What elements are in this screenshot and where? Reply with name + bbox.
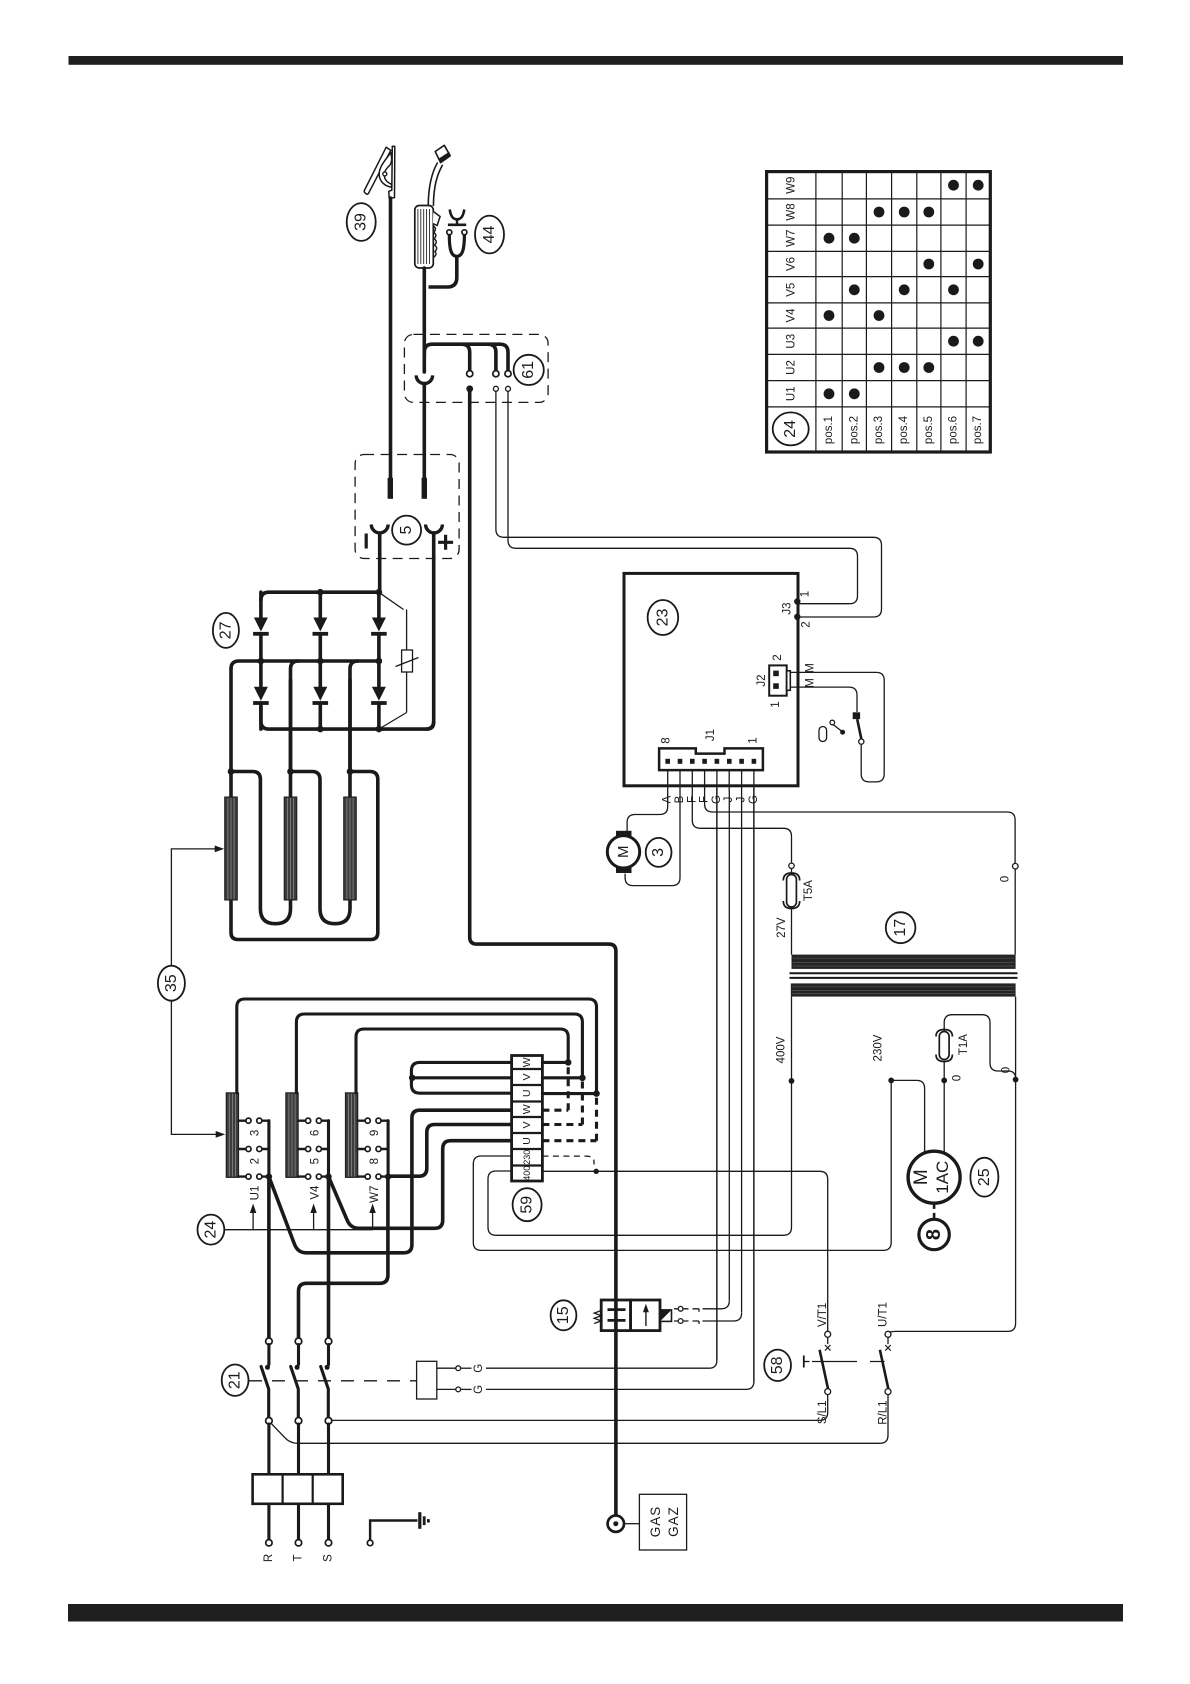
torch gas coupling icon [429, 210, 467, 288]
node 0 motor [941, 1078, 947, 1084]
main transformer winding bar W7 [345, 1093, 357, 1178]
label M M [805, 663, 817, 688]
svg-text:J3: J3 [782, 602, 794, 614]
tap contact 9 [358, 1118, 388, 1136]
node 400 line [594, 1169, 599, 1174]
diode bottom row 3 [371, 661, 387, 729]
wire J1-B to fan motor 3 [625, 792, 680, 886]
wire winding W7 top to terminal strip [356, 1029, 568, 1093]
coil contact G1 [437, 1364, 485, 1373]
wire strip W1-U1 star link [411, 1062, 511, 1093]
node strip W1 [565, 1059, 572, 1066]
plus sign [438, 535, 453, 550]
svg-text:U: U [521, 1089, 533, 1097]
leader 35 to transformer winding [171, 1001, 225, 1138]
thermal switch on motor [853, 712, 864, 744]
wire V4 tap to switch pole 3 [327, 1177, 331, 1339]
output terminal box 5 (dashed) [355, 455, 459, 559]
fuse T1A [936, 1030, 970, 1062]
wire switch pole3 to S/L1 [332, 1395, 828, 1421]
svg-text:pos.2: pos.2 [848, 416, 860, 444]
tap selector bus U1 [267, 1121, 270, 1177]
wire strip V1 right [542, 1076, 582, 1079]
svg-text:3: 3 [250, 1130, 262, 1136]
rectifier bottom bus [261, 706, 434, 729]
J1 pin wires and labels [662, 770, 760, 804]
wire 27V winding 0 lead [1000, 863, 1019, 954]
tap contact 5 [298, 1146, 328, 1164]
clamp cable wire [389, 198, 393, 479]
svg-text:U1: U1 [786, 386, 798, 401]
label 24 table [773, 412, 809, 445]
coil contact G2 [437, 1385, 485, 1394]
svg-text:pos.5: pos.5 [923, 416, 935, 444]
svg-text:0: 0 [1001, 1067, 1013, 1073]
switch V/T1/S/L1 [817, 1303, 831, 1424]
svg-text:V/T1: V/T1 [817, 1303, 829, 1327]
node choke junction 2 [287, 768, 294, 775]
dashed link U2 [542, 1094, 596, 1141]
wire W7 tap to switch pole 2 [299, 1176, 388, 1338]
wire U1 tap to switch pole 1 [267, 1177, 271, 1339]
label J2 [756, 654, 784, 707]
node strip U1 [593, 1090, 600, 1097]
svg-text:U1: U1 [250, 1186, 262, 1201]
svg-text:GAZ: GAZ [666, 1506, 681, 1537]
gas inlet connector [608, 1516, 640, 1532]
svg-text:M: M [911, 1169, 932, 1185]
svg-text:W7: W7 [369, 1186, 381, 1203]
svg-text:61: 61 [520, 361, 537, 379]
node tap junction V4 [325, 1173, 331, 1179]
svg-text:24: 24 [782, 420, 799, 438]
label 21 [222, 1365, 249, 1396]
choke core bar 3 [344, 797, 357, 900]
svg-text:0: 0 [952, 1075, 964, 1081]
wire U1 tap to strip cell W2 [269, 1110, 513, 1253]
wire J2-1 to thermal switch [790, 687, 857, 712]
wire J1-G2 down [753, 792, 755, 1382]
wire J1-G down [716, 792, 718, 1361]
label J1 [661, 729, 760, 744]
svg-text:M: M [805, 678, 817, 688]
svg-text:15: 15 [555, 1306, 572, 1324]
svg-text:27: 27 [217, 621, 234, 639]
svg-text:M: M [615, 846, 632, 859]
svg-text:1AC: 1AC [933, 1161, 952, 1194]
svg-text:GAS: GAS [648, 1506, 663, 1538]
wire fuse T1A top loop to 0 rail [944, 1015, 1015, 1080]
node star point [409, 1075, 416, 1082]
label 25 [970, 1158, 998, 1197]
svg-text:8: 8 [369, 1158, 381, 1164]
choke winding path 1 [231, 772, 378, 940]
plus socket in 5 [426, 525, 443, 533]
wire fuse T5A to 27V winding [791, 908, 793, 955]
61 connector contacts row 2 [466, 385, 473, 392]
label 35 [158, 966, 185, 1001]
svg-text:U/T1: U/T1 [878, 1302, 890, 1327]
link motor to fan [933, 1203, 936, 1218]
svg-text:8: 8 [661, 737, 673, 743]
wire 61 internal bus with three drops [424, 344, 508, 373]
fuse T5A [783, 863, 815, 908]
svg-text:V4: V4 [786, 308, 798, 323]
wire J1-F2 to 27V winding 0 [705, 792, 1016, 864]
wire strip 400 to transformer 400V [488, 997, 792, 1236]
diode top row 3 [371, 592, 387, 661]
svg-text:pos.1: pos.1 [823, 416, 835, 444]
svg-text:G: G [473, 1385, 485, 1394]
terminal plug pins in 5 [388, 478, 393, 499]
svg-text:R: R [263, 1554, 275, 1562]
tap contact 8 [358, 1146, 388, 1164]
label 5 [392, 516, 421, 545]
wire coil G1 to J1 pin G [486, 788, 717, 1368]
wire mid bus branch 2 [291, 661, 299, 772]
wire 0 rail to U/T1 [888, 997, 1016, 1335]
svg-text:U3: U3 [786, 334, 798, 349]
leader 24 with arrows [225, 1204, 376, 1230]
svg-text:21: 21 [227, 1371, 244, 1389]
coupling 58 [812, 1361, 885, 1363]
svg-text:V5: V5 [786, 283, 798, 297]
svg-text:G: G [473, 1364, 485, 1373]
svg-text:W9: W9 [786, 177, 798, 194]
label 59 [513, 1188, 542, 1221]
svg-text:J2: J2 [756, 674, 768, 686]
svg-text:59: 59 [519, 1196, 536, 1214]
wire V4 tap to strip cell U2 [329, 1141, 514, 1229]
svg-text:24: 24 [202, 1221, 219, 1239]
svg-text:U: U [521, 1137, 533, 1145]
svg-text:230: 230 [522, 1150, 532, 1165]
valve contact 2 [674, 1319, 699, 1324]
mains terminal T [293, 1540, 305, 1562]
svg-text:9: 9 [369, 1130, 381, 1136]
node bottom bus col2 [317, 726, 324, 733]
valve contact 1 [674, 1306, 699, 1311]
wire fuse T1A to fan motor 25 [943, 1062, 945, 1155]
earth terminal [367, 1521, 417, 1546]
label 61 [514, 355, 544, 385]
svg-text:0: 0 [1000, 876, 1012, 882]
svg-text:pos.6: pos.6 [948, 416, 960, 444]
wire valve 1 to J1-J [703, 1301, 730, 1309]
rectifier mid bus [231, 661, 379, 669]
wire winding U1 top to terminal strip [237, 999, 597, 1094]
svg-text:44: 44 [481, 226, 498, 244]
svg-text:25: 25 [976, 1168, 993, 1186]
node top bus col3 [376, 589, 383, 596]
wire strip 400 right to V/T1 [542, 1171, 827, 1331]
svg-text:400: 400 [522, 1166, 532, 1181]
node 230V [888, 1078, 894, 1084]
svg-text:V: V [521, 1121, 533, 1128]
fan symbol 8 [919, 1219, 949, 1249]
switch 21 pole 2 [291, 1338, 302, 1424]
wire rectifier to choke phase 1 [229, 669, 233, 772]
minus sign [365, 534, 368, 549]
svg-text:8: 8 [923, 1229, 945, 1240]
valve spring [594, 1311, 601, 1324]
wire J1-A to fan motor 3 [627, 792, 668, 832]
wire valve 2 to J1-J2 [703, 1313, 742, 1321]
svg-text:5: 5 [309, 1158, 321, 1164]
dashed strip 230 right [542, 1156, 594, 1164]
node top bus col2 [317, 589, 324, 596]
svg-text:V: V [521, 1073, 533, 1080]
svg-text:5: 5 [398, 526, 415, 535]
transformer 17 primary winding [791, 983, 1016, 996]
wire J2-2 to thermal switch [790, 672, 884, 782]
node mid bus col2 [317, 658, 324, 665]
node mid bus col3 [376, 658, 383, 665]
label 15 [551, 1300, 577, 1330]
svg-text:1: 1 [748, 737, 760, 743]
mains terminal S [323, 1540, 335, 1562]
tap contact 3 [239, 1118, 269, 1136]
svg-text:35: 35 [163, 974, 180, 992]
tap selector bus W7 [387, 1121, 390, 1177]
svg-text:W7: W7 [786, 230, 798, 247]
svg-text:27V: 27V [776, 917, 788, 938]
thermal sensor symbol [819, 720, 845, 741]
rectifier top bus [261, 592, 379, 600]
tap contact 2 [239, 1146, 269, 1164]
wire torch trigger b: 61 to J3 pin 1 [508, 391, 858, 603]
fan motor 3 [607, 831, 639, 873]
voltage selector strip 59 [512, 1056, 543, 1182]
svg-text:6: 6 [309, 1130, 321, 1136]
tap contact U1 [239, 1174, 269, 1200]
svg-text:2: 2 [250, 1158, 262, 1164]
svg-text:17: 17 [892, 919, 909, 937]
minus socket in 5 [371, 525, 388, 533]
wire winding V4 top to terminal strip [296, 1014, 582, 1093]
svg-text:2: 2 [772, 654, 784, 660]
mains terminal R [263, 1540, 275, 1563]
connector J2 [769, 665, 790, 695]
diode top row 2 [313, 592, 329, 661]
svg-text:T1A: T1A [958, 1034, 970, 1055]
svg-text:W: W [521, 1057, 533, 1067]
diode top row 1 [253, 592, 269, 661]
node mid bus col1 [258, 658, 265, 665]
wire switch pole1 to R/L1 [271, 1395, 888, 1444]
transformer 17 core [790, 973, 1018, 978]
wire strip 230 to transformer 230V [473, 1080, 891, 1250]
ground symbol [420, 1512, 429, 1529]
choke winding path 2 [231, 772, 291, 924]
dashed link W2 [542, 1062, 568, 1110]
diode bottom row 1 [253, 661, 269, 729]
svg-text:1: 1 [800, 591, 812, 597]
61 connector contacts row 1 [467, 371, 473, 377]
svg-text:W: W [521, 1104, 533, 1114]
svg-text:400V: 400V [776, 1036, 788, 1063]
bottom border bar [68, 1604, 1123, 1622]
svg-text:V6: V6 [786, 257, 798, 271]
connector J1 [659, 748, 763, 770]
svg-text:W8: W8 [786, 203, 798, 220]
label 58 [764, 1350, 791, 1381]
label 3 [646, 838, 672, 867]
tap contact W7 [358, 1174, 388, 1203]
svg-text:3: 3 [650, 848, 667, 857]
connector box 61 (dashed) [404, 334, 548, 402]
wire coil G2 to J1 pin G [486, 788, 754, 1389]
tap contact 6 [298, 1118, 328, 1136]
label J3 [782, 591, 813, 628]
wire rectifier to choke phase 3 [348, 680, 352, 772]
wire gas hose 61 to valve 15 to gas inlet [470, 392, 616, 1515]
wire strip V1 star link [412, 1076, 512, 1079]
torch cable socket in 61 [416, 375, 432, 383]
node 0 rail [1013, 1077, 1019, 1083]
wire 61 socket to terminal 5 plug [422, 384, 426, 478]
mains fuse block [253, 1424, 343, 1540]
work clamp 39 icon [364, 146, 395, 198]
top border bar [69, 56, 1124, 65]
dashed link V2 [542, 1078, 582, 1125]
svg-text:U2: U2 [786, 360, 798, 375]
choke core bar 1 [225, 797, 238, 900]
fan motor 25 [908, 1151, 960, 1203]
varistor across rectifier [381, 594, 419, 728]
GAS GAZ box [639, 1494, 686, 1550]
svg-text:T5A: T5A [803, 880, 815, 901]
node tap junction U1 [266, 1173, 272, 1179]
control board 23 [624, 573, 798, 785]
diode bottom row 2 [313, 661, 329, 729]
wire 230V to fan motor 25 [891, 1080, 924, 1154]
choke core bar 2 [284, 797, 297, 900]
torch cable wire [422, 268, 426, 372]
label 24 (tap selector) [198, 1215, 225, 1245]
node choke junction 3 [347, 768, 354, 775]
switch 21 pole 3 [321, 1338, 332, 1424]
connector J3 pin 1 [794, 598, 800, 604]
switch 21 coil box [417, 1361, 437, 1399]
svg-text:2: 2 [801, 621, 813, 627]
connector J3 pin 2 [794, 614, 800, 620]
node choke junction 1 [228, 768, 235, 775]
valve solenoid [660, 1310, 672, 1322]
wire minus output to rectifier [378, 534, 382, 593]
wire strip U1 right [542, 1092, 596, 1095]
wire mid bus branch 3 [350, 661, 358, 772]
torch 44 icon [415, 145, 450, 268]
switch 21 pole 1 [261, 1338, 272, 1424]
svg-text:1: 1 [770, 701, 782, 707]
wire J1-J down [728, 792, 730, 1301]
label 17 [886, 912, 916, 943]
wire torch trigger a: 61 to J3 pin 2 [496, 391, 882, 617]
node bottom bus col3 [376, 726, 383, 733]
switch 21 coupling line [249, 1380, 417, 1382]
main transformer winding bar V4 [286, 1093, 298, 1178]
wire J1-F to fuse T5A [692, 792, 791, 863]
main transformer winding bar U1 [226, 1093, 238, 1178]
svg-text:S: S [323, 1554, 335, 1562]
svg-text:23: 23 [654, 609, 671, 627]
wire rectifier to choke phase 2 [289, 680, 293, 772]
tap selector bus V4 [327, 1121, 330, 1177]
label 23 [648, 600, 679, 635]
svg-text:M: M [805, 663, 817, 673]
tap position table 24 [767, 172, 991, 452]
label 27 [213, 613, 239, 648]
node 400V [789, 1078, 795, 1084]
wire plus output to rectifier [427, 534, 434, 730]
svg-text:T: T [293, 1554, 305, 1561]
manual actuator symbol [804, 1356, 810, 1368]
node strip V1 [579, 1075, 586, 1082]
leader 35 to choke [171, 846, 224, 966]
svg-text:pos.3: pos.3 [873, 416, 885, 444]
node tap junction W7 [385, 1173, 391, 1179]
svg-text:39: 39 [353, 213, 370, 231]
svg-text:R/L1: R/L1 [878, 1401, 890, 1425]
choke winding path 3 [291, 772, 351, 924]
switch U/T1/R/L1 [878, 1302, 892, 1425]
wire strip W1 right [542, 1061, 568, 1064]
svg-text:J1: J1 [705, 729, 717, 741]
wire W7 tap to strip cell V2 [388, 1125, 513, 1177]
wire J1-J2 down [741, 792, 743, 1313]
label 44 [475, 216, 504, 254]
svg-text:S/L1: S/L1 [817, 1401, 829, 1425]
transformer 17 secondary winding [792, 955, 1016, 969]
svg-text:230V: 230V [873, 1034, 885, 1061]
svg-text:pos.4: pos.4 [898, 415, 910, 444]
gas valve body [601, 1300, 660, 1331]
tap contact V4 [298, 1174, 328, 1200]
svg-text:pos.7: pos.7 [972, 416, 984, 444]
label 39 [347, 203, 376, 241]
svg-text:V4: V4 [309, 1185, 321, 1200]
svg-text:58: 58 [769, 1356, 786, 1374]
